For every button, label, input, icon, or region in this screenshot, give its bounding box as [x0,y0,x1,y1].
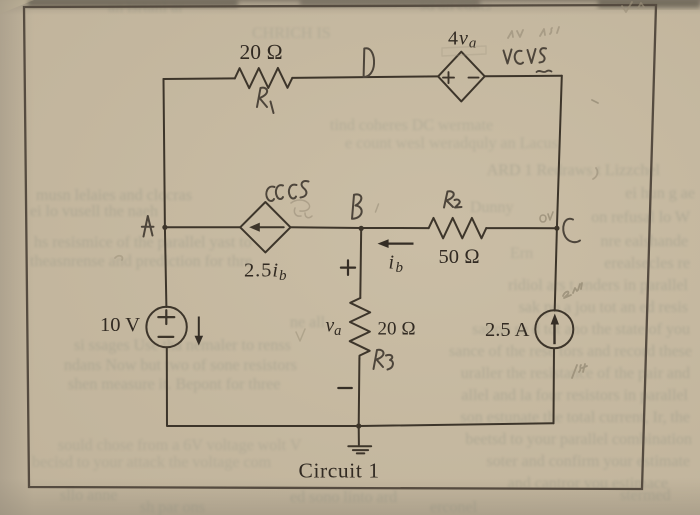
label R1 [257,88,274,113]
LABELS typeset [100,28,530,483]
svg-text:ei lo vusell the naeh: ei lo vusell the naeh [30,203,158,220]
vcvs U1 [438,52,485,102]
wire cccs to B [291,226,362,229]
node label B [352,194,362,218]
HANDWRITTEN [142,48,580,369]
svg-text:erconel: erconel [430,499,478,515]
minus sign [469,77,479,79]
svg-text:shen measure it. Bepont for t: shen measure it. Bepont for three [68,376,280,393]
svg-text:nre ealshande: nre ealshande [600,233,688,250]
cccs I1 [240,202,290,252]
node label C [563,219,580,242]
wire [485,75,562,78]
tilde under VCVS [537,71,552,72]
label CCCS [266,181,308,201]
cccs arrow [256,226,284,228]
svg-text:sance of the rese tors and rec: sance of the rese tors and record these [449,343,692,360]
source I2 2.5A [535,310,573,348]
pencil curve right margin [593,168,597,179]
10V direction arrow [195,317,204,346]
plus sign [443,72,454,83]
svg-text:sh par ons: sh par ons [140,499,205,515]
dark blobs top edge [28,0,700,8]
svg-text:sould chose from a 6V voltage: sould chose from a 6V voltage wolt V [58,437,302,454]
pencil mark left of A [115,256,122,260]
svg-text:ridiol ars t enders in parall: ridiol ars t enders in parallel [508,277,688,294]
svg-text:50 Ω: 50 Ω [439,246,480,268]
svg-text:ndans Now but two of sone res: ndans Now but two of sone resistors [64,357,297,374]
svg-text:2.5 A: 2.5 A [485,319,530,341]
svg-text:soter and confirm your estimat: soter and confirm your estimate [487,453,691,470]
resistor R2 [429,218,487,238]
svg-text:theasnrense and prediction for: theasnrense and prediction for thre [30,253,252,270]
svg-text:20 Ω: 20 Ω [240,40,283,64]
source V1 10V [146,307,186,347]
wire right upper [557,76,562,228]
svg-text:ARD 1 Redraws t Lizzchel: ARD 1 Redraws t Lizzchel [487,162,661,179]
wire [553,348,556,423]
svg-text:e count wesl weradquly an Lac: e count wesl weradquly an Lacus [345,135,558,152]
svg-text:becisd to your attack the volt: becisd to your attack the voltage com [32,454,272,471]
svg-text:10 V: 10 V [100,314,140,336]
wire B to R2 [361,227,429,229]
wire R2 to C [486,227,557,229]
pencil check below va [296,329,305,341]
label plus va [341,260,355,275]
resistor R1 [235,68,292,88]
label R3 [374,350,393,370]
svg-text:tind coheres DC wermate: tind coheres DC wermate [330,117,493,134]
node C [554,226,559,231]
2.5A arrow [551,314,559,345]
svg-text:on refusal lo W: on refusal lo W [591,209,691,226]
node A [162,225,167,230]
ground [348,426,371,453]
pencil stroke near B [376,204,379,212]
label VCVS [504,48,547,64]
svg-text:musn lelaies and clocras: musn lelaies and clocras [36,187,192,204]
pencil dash [592,100,598,103]
svg-text:ne all: ne all [290,314,326,331]
node label A [142,216,154,237]
node B [359,226,364,231]
svg-text:Dunny: Dunny [470,199,514,216]
pencil erased box near 4va [442,46,486,56]
svg-text:allel and la four resistors in: allel and la four resistors in parallel [461,387,688,404]
wire [292,76,438,78]
wire A to cccs [165,226,240,228]
wire B down [359,228,362,298]
pencil 2V VS top [508,27,559,38]
plus sign [158,310,174,324]
cccs arrowhead [249,223,260,232]
svg-text:ed sono linto ard: ed sono linto ard [290,489,397,506]
svg-text:beetsd to your parallel combin: beetsd to your parallel combination [465,431,692,448]
resistor R3 [350,298,371,359]
node ground junction [356,423,361,428]
node label D [364,48,374,77]
svg-text:Ern: Ern [510,245,533,262]
svg-text:20 Ω: 20 Ω [378,319,416,340]
svg-text:sllo anne: sllo anne [60,487,117,504]
ib arrow [378,239,414,248]
minus sign [159,336,174,338]
pencil 0V [540,212,553,222]
wire [167,347,554,426]
pencil scribble under CCCS [291,200,312,218]
label minus va [338,387,352,389]
label R2 [444,191,462,207]
wire C down [555,228,557,310]
svg-text:erealsecles re: erealsecles re [604,255,690,272]
PENCIL faint [115,2,644,378]
wire left [164,79,167,307]
wire R3 to ground node [358,359,361,426]
pencil 2nd [563,283,582,298]
svg-text:Circuit 1: Circuit 1 [299,459,380,483]
pencil 1st [572,364,587,378]
pencil check top right [622,2,644,12]
svg-text:ei hun g ae: ei hun g ae [625,185,695,202]
wire top-left [164,77,235,80]
